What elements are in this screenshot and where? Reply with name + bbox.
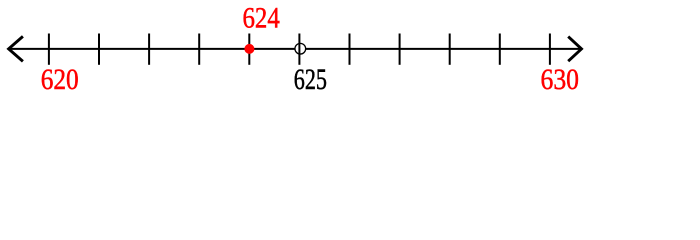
tick 624 [248, 34, 250, 65]
tick 626 [349, 34, 351, 65]
open circle at 625 [295, 43, 306, 54]
right arrowhead [568, 37, 581, 62]
tick 629 [499, 34, 501, 65]
tick 623 [198, 34, 200, 65]
tick 625 [298, 34, 300, 65]
svg-text:625: 625 [294, 64, 327, 96]
svg-text:630: 630 [541, 64, 580, 96]
svg-text:620: 620 [41, 64, 79, 96]
tick 620 [48, 34, 50, 65]
svg-text:624: 624 [243, 3, 281, 35]
tick 630 [549, 34, 551, 65]
red point at 624 [244, 44, 254, 54]
tick 621 [98, 34, 100, 65]
tick 627 [399, 34, 401, 65]
tick 622 [148, 34, 150, 65]
tick 628 [449, 34, 451, 65]
left arrowhead [9, 36, 23, 61]
wire: main number line [9, 48, 581, 50]
